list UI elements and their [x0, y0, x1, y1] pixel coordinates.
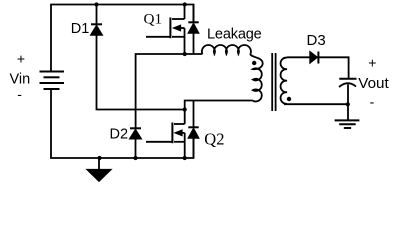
node dot secondary polarity [287, 97, 291, 101]
svg-text:Leakage: Leakage [207, 27, 262, 43]
svg-text:-: - [370, 94, 375, 110]
svg-text:+: + [368, 55, 376, 71]
diode body of Q1 [188, 5, 199, 55]
node dot top rail / Q1 drain [183, 2, 187, 6]
wire D1 anode down to clamp node [97, 35, 185, 110]
wire secondary bottom to output ground [284, 103, 348, 105]
node dot primary polarity [252, 61, 256, 65]
wire primary bottom to Q2 drain [185, 101, 253, 125]
diode body of Q2 [188, 101, 199, 159]
wire secondary top to output cap [287, 57, 349, 79]
svg-text:D2: D2 [110, 126, 129, 142]
svg-text:Q1: Q1 [144, 11, 163, 28]
svg-text:D1: D1 [71, 21, 90, 37]
wire Q1 source to leakage inductor and down to D2 [136, 54, 203, 128]
inductor Leakage [202, 45, 251, 54]
node dot Q2 drain / clamp node [183, 107, 187, 111]
battery V1 Vin [40, 72, 65, 90]
capacitor C1 output [339, 79, 357, 121]
node dot Q2 source on bottom rail [183, 156, 187, 160]
transformer T1 secondary winding [281, 58, 287, 104]
ground primary [87, 158, 112, 181]
svg-text:Vout: Vout [358, 75, 389, 92]
transistor Q2 [146, 123, 185, 159]
diode D2 [129, 128, 141, 158]
diode D3 [310, 51, 319, 63]
wire battery minus to bottom rail [51, 89, 194, 158]
svg-text:+: + [17, 51, 25, 67]
svg-text:D3: D3 [307, 32, 326, 49]
node dot output return [346, 102, 350, 106]
wire top rail from battery to Q1 diode [51, 5, 194, 72]
transformer T1 primary winding [250, 54, 262, 101]
transistor Q1 [146, 5, 185, 55]
diode D1 [90, 5, 102, 36]
node dot ground tap on bottom rail [97, 156, 101, 160]
ground secondary [335, 120, 360, 128]
node dot D2 anode on bottom rail [133, 156, 137, 160]
node dot top rail / D1 [94, 2, 98, 6]
node dot Q1 source [183, 52, 187, 56]
transformer T1 core [272, 53, 275, 111]
svg-text:Q2: Q2 [204, 129, 224, 148]
svg-text:-: - [17, 86, 22, 102]
